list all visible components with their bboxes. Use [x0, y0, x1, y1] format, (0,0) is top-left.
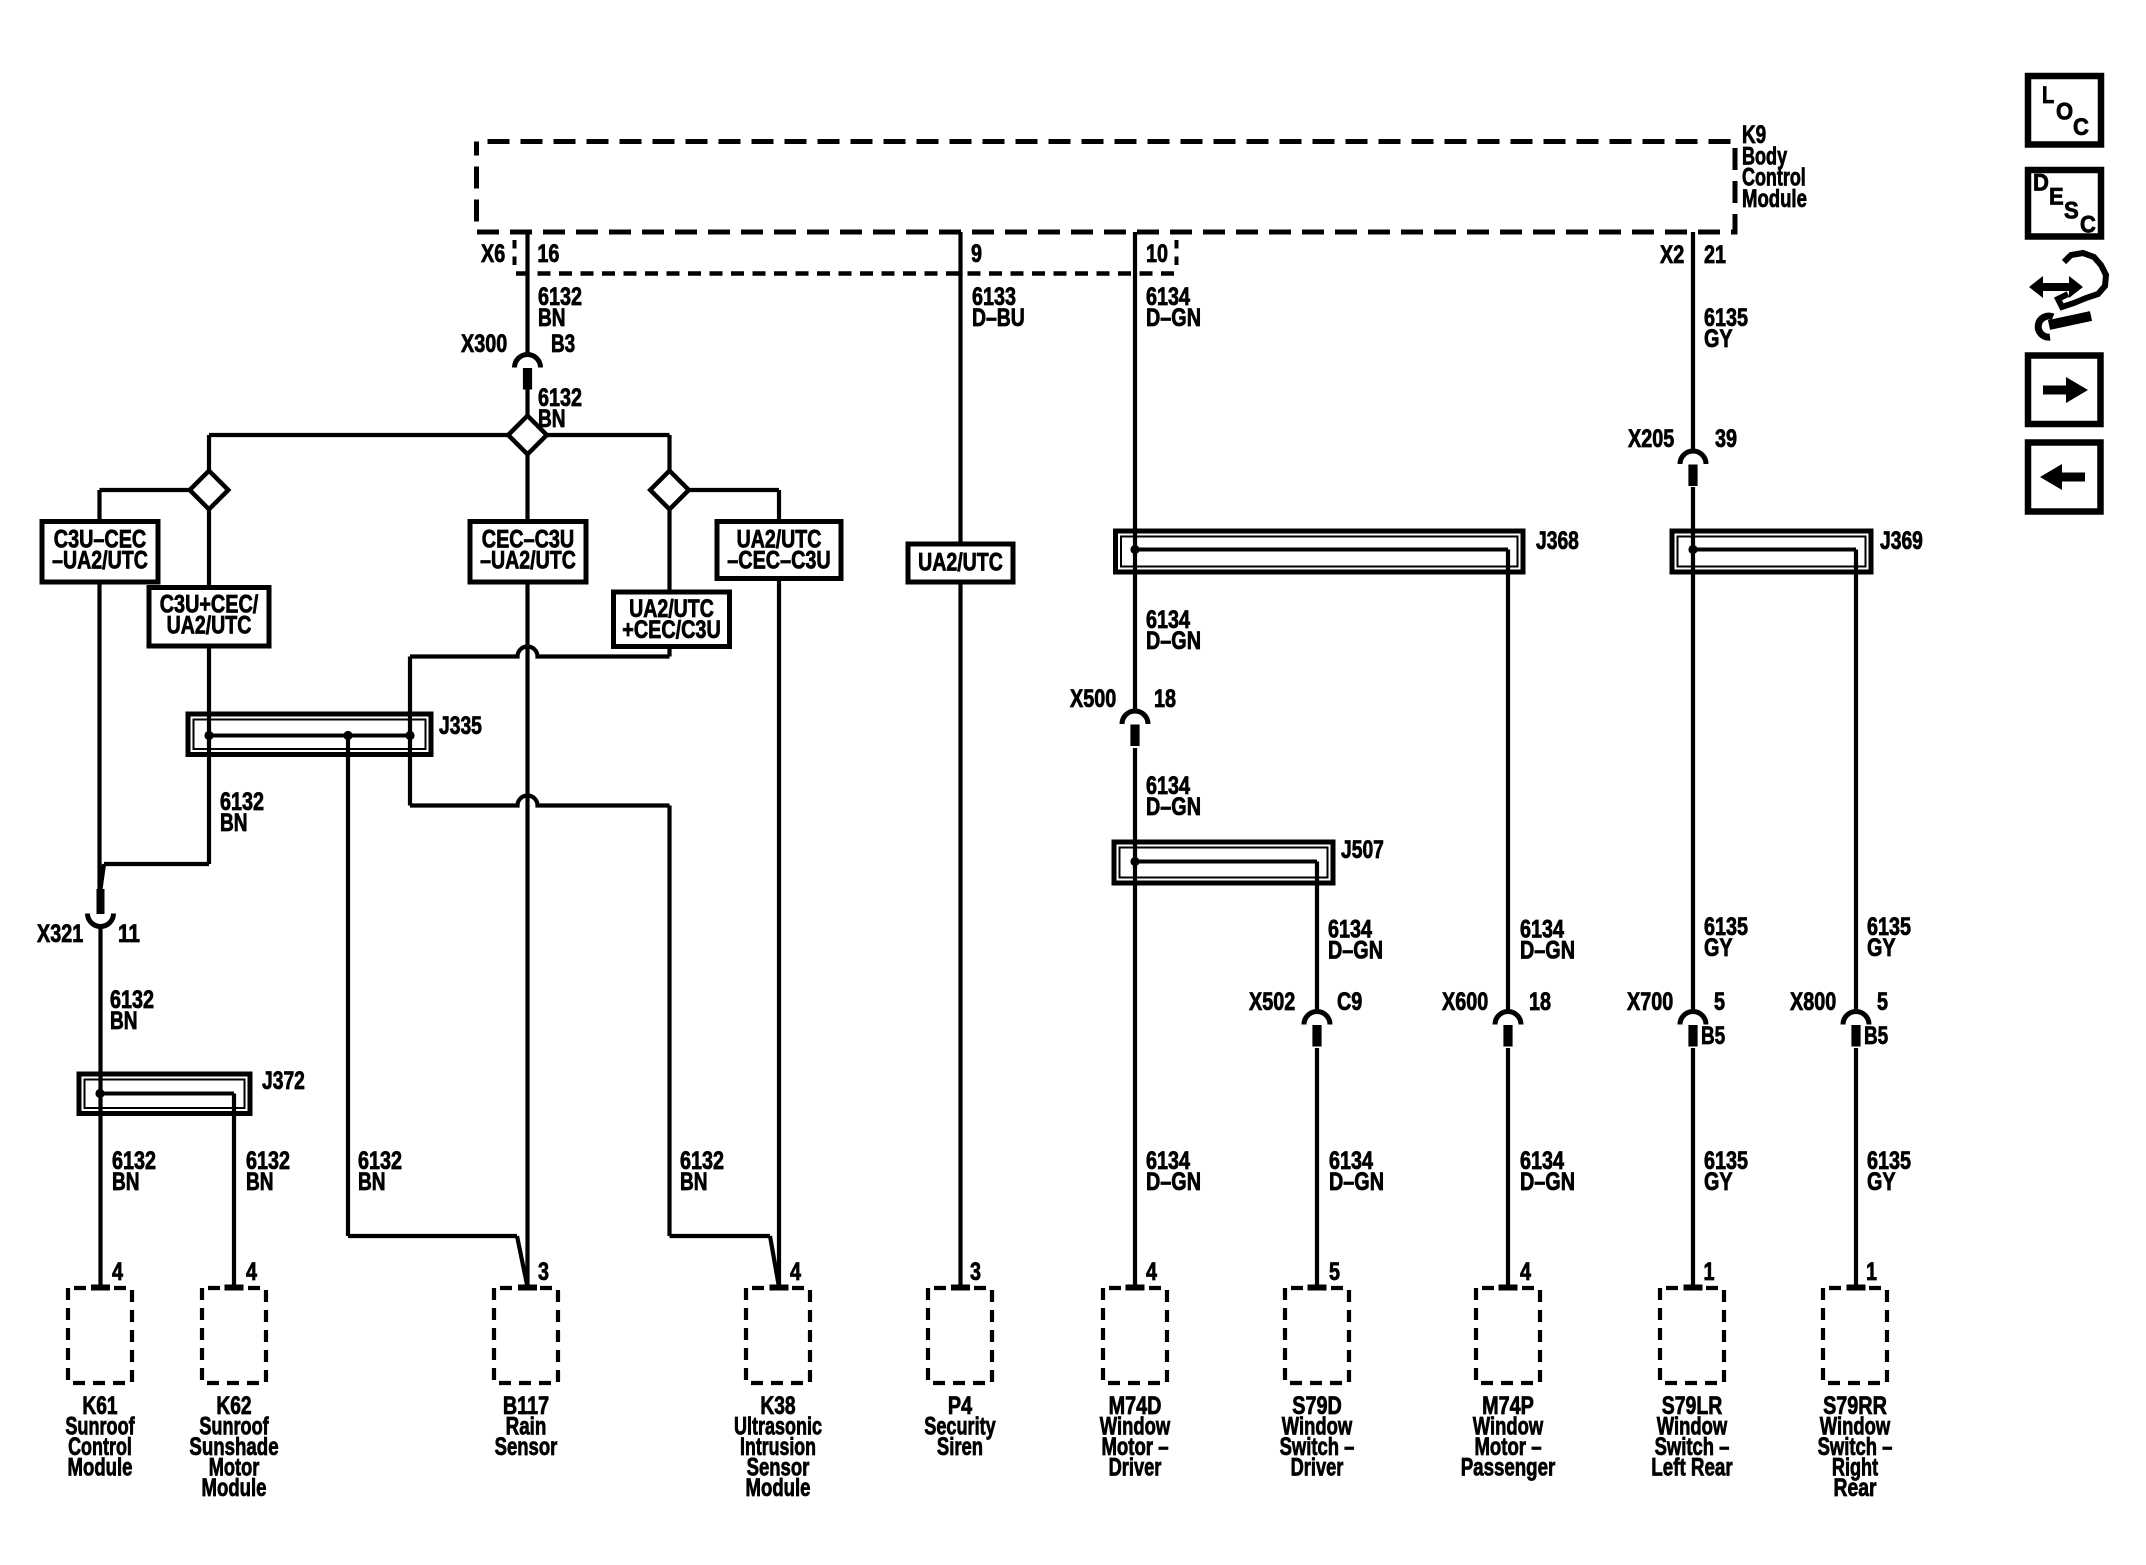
svg-text:BN: BN — [112, 1168, 140, 1196]
svg-text:10: 10 — [1146, 240, 1168, 268]
svg-text:BN: BN — [680, 1168, 708, 1196]
svg-text:D–GN: D–GN — [1328, 937, 1383, 965]
svg-text:21: 21 — [1704, 241, 1726, 269]
svg-text:X2: X2 — [1660, 241, 1684, 269]
svg-text:Sensor: Sensor — [495, 1433, 558, 1461]
svg-text:E: E — [2049, 184, 2064, 211]
svg-text:4: 4 — [790, 1258, 801, 1286]
svg-text:B3: B3 — [551, 330, 575, 358]
svg-text:Driver: Driver — [1109, 1454, 1162, 1482]
svg-text:Module: Module — [746, 1474, 811, 1502]
svg-text:S: S — [2064, 198, 2079, 225]
svg-text:D–GN: D–GN — [1520, 1168, 1575, 1196]
svg-text:5: 5 — [1329, 1258, 1340, 1286]
svg-text:Module: Module — [1742, 185, 1807, 213]
svg-text:J335: J335 — [439, 712, 482, 740]
svg-text:D: D — [2033, 170, 2049, 197]
svg-text:3: 3 — [970, 1258, 981, 1286]
svg-text:D–GN: D–GN — [1520, 937, 1575, 965]
svg-text:4: 4 — [1146, 1258, 1157, 1286]
svg-text:3: 3 — [538, 1258, 549, 1286]
svg-text:B5: B5 — [1864, 1022, 1888, 1050]
svg-text:UA2/UTC: UA2/UTC — [167, 612, 252, 640]
svg-text:J368: J368 — [1536, 527, 1579, 555]
svg-text:X500: X500 — [1070, 685, 1116, 713]
svg-text:X205: X205 — [1628, 425, 1674, 453]
svg-text:X300: X300 — [461, 330, 507, 358]
svg-text:GY: GY — [1704, 934, 1733, 962]
svg-text:1: 1 — [1866, 1258, 1877, 1286]
svg-text:X502: X502 — [1249, 988, 1295, 1016]
svg-text:Module: Module — [202, 1474, 267, 1502]
svg-text:Module: Module — [68, 1454, 133, 1482]
svg-text:O: O — [2056, 99, 2073, 126]
svg-text:X800: X800 — [1790, 988, 1836, 1016]
svg-text:BN: BN — [538, 304, 566, 332]
svg-text:D–GN: D–GN — [1146, 627, 1201, 655]
svg-text:X321: X321 — [37, 920, 83, 948]
svg-text:11: 11 — [118, 920, 140, 948]
svg-text:C: C — [2080, 212, 2096, 239]
svg-text:GY: GY — [1704, 325, 1733, 353]
svg-text:GY: GY — [1867, 1168, 1896, 1196]
svg-text:4: 4 — [1520, 1258, 1531, 1286]
svg-text:Driver: Driver — [1291, 1454, 1344, 1482]
svg-text:Rear: Rear — [1834, 1474, 1877, 1502]
svg-text:Passenger: Passenger — [1461, 1454, 1556, 1482]
svg-text:GY: GY — [1867, 934, 1896, 962]
svg-text:GY: GY — [1704, 1168, 1733, 1196]
svg-text:X6: X6 — [481, 240, 505, 268]
svg-text:D–BU: D–BU — [972, 304, 1025, 332]
svg-text:4: 4 — [246, 1258, 257, 1286]
svg-text:9: 9 — [971, 240, 982, 268]
svg-text:B5: B5 — [1701, 1022, 1725, 1050]
svg-text:–UA2/UTC: –UA2/UTC — [480, 547, 576, 575]
svg-text:BN: BN — [220, 809, 248, 837]
svg-text:L: L — [2042, 82, 2054, 109]
svg-text:39: 39 — [1715, 425, 1737, 453]
svg-text:D–GN: D–GN — [1146, 793, 1201, 821]
svg-text:X600: X600 — [1442, 988, 1488, 1016]
svg-text:–CEC–C3U: –CEC–C3U — [727, 547, 830, 575]
svg-text:Left Rear: Left Rear — [1651, 1454, 1733, 1482]
svg-text:D–GN: D–GN — [1146, 304, 1201, 332]
svg-text:BN: BN — [358, 1168, 386, 1196]
svg-text:BN: BN — [538, 405, 566, 433]
svg-text:BN: BN — [110, 1007, 138, 1035]
svg-text:J372: J372 — [262, 1067, 305, 1095]
svg-text:J507: J507 — [1341, 836, 1384, 864]
svg-text:UA2/UTC: UA2/UTC — [918, 549, 1003, 577]
svg-text:C: C — [2073, 114, 2089, 141]
svg-text:Siren: Siren — [937, 1433, 983, 1461]
svg-text:18: 18 — [1529, 988, 1551, 1016]
svg-text:16: 16 — [537, 240, 559, 268]
svg-text:4: 4 — [112, 1258, 123, 1286]
svg-text:1: 1 — [1704, 1258, 1715, 1286]
svg-text:5: 5 — [1877, 988, 1888, 1016]
svg-text:D–GN: D–GN — [1146, 1168, 1201, 1196]
svg-text:–UA2/UTC: –UA2/UTC — [52, 547, 148, 575]
svg-text:5: 5 — [1714, 988, 1725, 1016]
svg-text:18: 18 — [1154, 685, 1176, 713]
svg-text:C9: C9 — [1337, 988, 1362, 1016]
svg-text:X700: X700 — [1627, 988, 1673, 1016]
svg-text:D–GN: D–GN — [1329, 1168, 1384, 1196]
svg-text:+CEC/C3U: +CEC/C3U — [622, 616, 721, 644]
svg-text:J369: J369 — [1880, 527, 1923, 555]
svg-text:BN: BN — [246, 1168, 274, 1196]
